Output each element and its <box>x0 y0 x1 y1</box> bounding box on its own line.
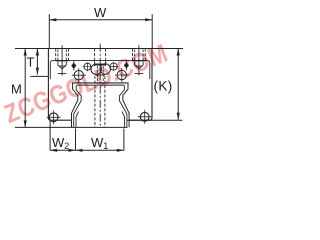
block outline <box>48 49 152 121</box>
top ball left <box>91 64 101 74</box>
rail bolt centerline <box>99 44 101 127</box>
block lip inner right <box>119 85 127 127</box>
datum target right <box>140 112 149 121</box>
left bolt drill cone <box>57 64 66 68</box>
right bolt end tick <box>135 71 144 76</box>
side ball right <box>117 70 126 79</box>
block bottom ref line right <box>127 119 182 121</box>
dimension M arrow bottom <box>24 120 27 127</box>
side ball right cross <box>115 68 129 82</box>
rail bolt hole in rail dashed <box>95 76 105 127</box>
right bolt counterbore dashed <box>133 49 146 61</box>
dimension T arrow bottom <box>36 68 39 75</box>
bottom ext line rail left <box>75 129 77 151</box>
bottom ext line rail right <box>123 129 125 151</box>
upper ball left cross <box>83 62 92 71</box>
datum target right cross <box>138 110 152 124</box>
arrow W1 left <box>76 149 83 152</box>
dimension K line <box>177 49 179 120</box>
svg-text:M: M <box>11 82 22 97</box>
left bolt hole centerline <box>61 45 63 70</box>
ground / rail bottom line <box>15 126 127 128</box>
block lip outer left <box>72 83 78 127</box>
dimension W ext left <box>48 14 50 48</box>
rail base edge left <box>76 111 79 127</box>
left bolt thread <box>58 50 66 65</box>
right bolt seat dash <box>133 60 146 62</box>
dimension K arrow bottom <box>177 113 180 120</box>
cavity roof line <box>72 82 129 84</box>
dimension K ext top <box>152 48 183 50</box>
rail top line <box>77 84 124 86</box>
rail base edge right <box>122 111 125 127</box>
dimension W arrow left <box>49 18 56 21</box>
contact diamond right centerline <box>125 61 127 71</box>
right bolt drill cone <box>134 64 143 68</box>
watermark ZCG...COM <box>0 38 172 130</box>
dimension T line <box>36 49 38 75</box>
rail bolt cross tick <box>96 74 106 76</box>
rail bolt seat bar <box>95 64 105 66</box>
contact diamond left <box>71 62 76 69</box>
right bolt hole centerline <box>138 45 140 70</box>
dimension W arrow right <box>145 18 152 21</box>
dimension W line <box>49 19 152 21</box>
dimension W ext right <box>151 14 153 48</box>
rail bolt counterbore sides <box>95 60 106 66</box>
right bolt cross tick <box>135 65 143 67</box>
svg-text:W1: W1 <box>91 135 108 151</box>
svg-text:W2: W2 <box>52 135 69 151</box>
contact diamond left centerline <box>73 61 75 71</box>
upper ball left <box>84 63 91 70</box>
upper ball right <box>110 63 117 70</box>
svg-text:W: W <box>94 5 107 20</box>
datum target left <box>49 113 58 122</box>
svg-text:(K): (K) <box>154 79 173 94</box>
arrow W2 right <box>69 149 76 152</box>
right bolt thread <box>135 50 143 65</box>
rail bolt thread dashed <box>97 66 103 84</box>
upper ball right cross <box>109 62 118 71</box>
left bolt seat dash <box>56 60 69 62</box>
rail bolt counterbore in block dashed <box>95 49 106 61</box>
left bolt cross tick <box>58 65 66 67</box>
dimension W2/W1 line <box>50 149 124 151</box>
bottom ext line left (block left edge) <box>49 121 51 150</box>
arrow W2 left <box>50 149 57 152</box>
block lip inner left <box>74 85 82 127</box>
dimension M arrow top <box>24 49 27 56</box>
dimension T arrow top <box>36 49 39 56</box>
svg-text:T: T <box>27 55 35 70</box>
arrow W1 right <box>117 149 124 152</box>
side ball left cross <box>72 68 86 82</box>
contact diamond right <box>124 62 129 69</box>
dimension M line <box>24 49 26 128</box>
top ball right <box>100 64 110 74</box>
left bolt end tick <box>58 71 67 76</box>
block inner contour line <box>50 60 150 79</box>
top reference line (extends left of block) <box>15 48 49 50</box>
block lip outer right <box>123 83 129 127</box>
side ball left <box>74 71 83 80</box>
dimension K arrow top <box>177 49 180 56</box>
dimension T bottom tick <box>30 75 48 77</box>
datum target left cross <box>47 110 61 124</box>
left bolt counterbore dashed <box>56 49 69 61</box>
